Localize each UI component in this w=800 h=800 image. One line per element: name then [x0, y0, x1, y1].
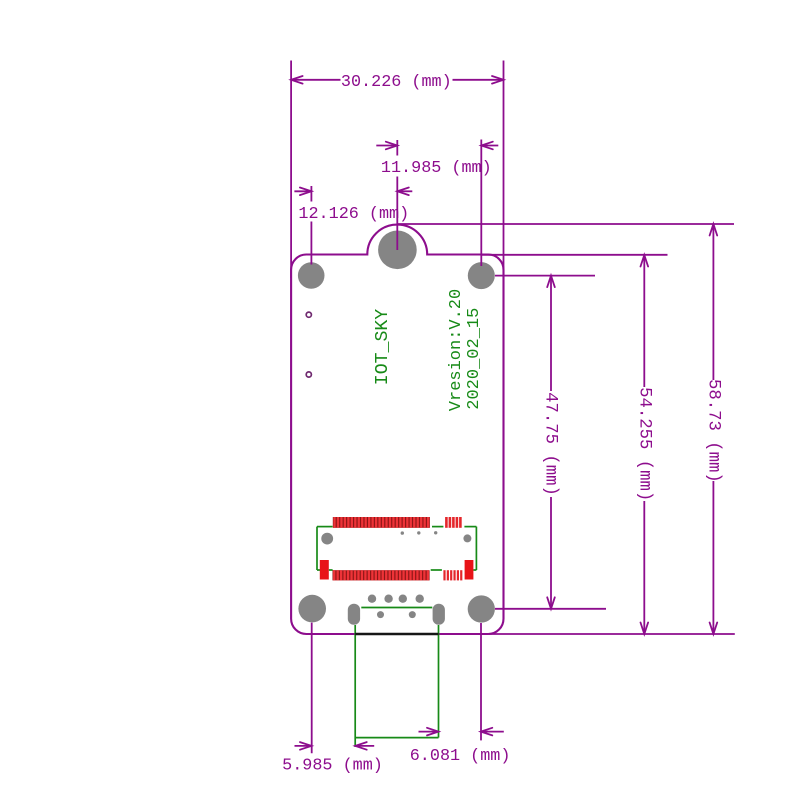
USB front edge (black): [355, 633, 438, 636]
svg-text:5.985 (mm): 5.985 (mm): [282, 756, 383, 775]
USB silkscreen line: [361, 607, 432, 609]
USB body outline (green): [354, 625, 356, 747]
dimension 11.985 arrows: [376, 145, 397, 147]
svg-text:47.75 (mm): 47.75 (mm): [541, 392, 560, 496]
svg-text:Vresion:V.20: Vresion:V.20: [447, 289, 466, 411]
connector mechanical pad left: [320, 560, 329, 580]
svg-text:11.985 (mm): 11.985 (mm): [381, 159, 492, 178]
dimension 6.081 arrows: [419, 731, 439, 733]
dimension 47.75 bottom extension: [495, 608, 606, 610]
dimension 47.75 top extension: [495, 275, 595, 277]
dimension 47.75 line+arrows: [550, 275, 552, 277]
dimension 30.226 extension line left: [290, 61, 292, 279]
board outline: [291, 225, 503, 634]
connector pads bottom row: [333, 570, 430, 580]
dimension 30.226 line+arrows: [291, 79, 340, 81]
connector mechanical pad right: [465, 560, 474, 580]
dimension 6.081 extension line: [480, 623, 482, 740]
dimension 12.126 extension stubs: [310, 186, 312, 202]
svg-text:IOT_SKY: IOT_SKY: [373, 309, 393, 385]
mounting hole bottom-left: [298, 595, 326, 623]
svg-text:12.126 (mm): 12.126 (mm): [298, 205, 409, 224]
dimension 54.255 top extension: [482, 254, 668, 256]
svg-text:54.255 (mm): 54.255 (mm): [634, 387, 653, 501]
dimension 54.255 line+arrows: [643, 254, 645, 256]
svg-text:6.081 (mm): 6.081 (mm): [410, 747, 511, 766]
USB shell pad right: [433, 604, 445, 625]
connector pads top row: [333, 517, 430, 528]
mounting hole bottom-right: [468, 595, 495, 622]
via 2: [306, 372, 311, 377]
bottom extension line: [489, 633, 735, 635]
svg-text:58.73 (mm): 58.73 (mm): [704, 379, 723, 483]
dimension 30.226 extension line right: [503, 61, 505, 278]
connector outline (green silkscreen): [316, 527, 318, 570]
mounting hole center top: [378, 231, 417, 270]
USB shell pad left: [348, 604, 360, 625]
svg-text:30.226 (mm): 30.226 (mm): [341, 73, 452, 92]
USB lower holes: [377, 611, 384, 618]
dimension 58.73 line+arrows: [712, 223, 714, 225]
USB pin holes row: [368, 595, 376, 603]
via 1: [306, 312, 311, 317]
dimension 11.985 extension stubs: [396, 140, 398, 156]
mounting hole top-right: [468, 262, 495, 289]
dimension 58.73 top extension: [397, 223, 734, 225]
connector small holes: [401, 531, 404, 534]
svg-text:2020_02_15: 2020_02_15: [465, 308, 484, 410]
mounting hole top-left: [298, 262, 325, 289]
dimension 12.126 arrows: [294, 190, 311, 192]
connector hole right: [463, 534, 471, 542]
connector hole left: [321, 533, 333, 545]
dimension 5.985 extension line: [311, 623, 313, 754]
dimension 5.985 arrows: [295, 745, 312, 747]
